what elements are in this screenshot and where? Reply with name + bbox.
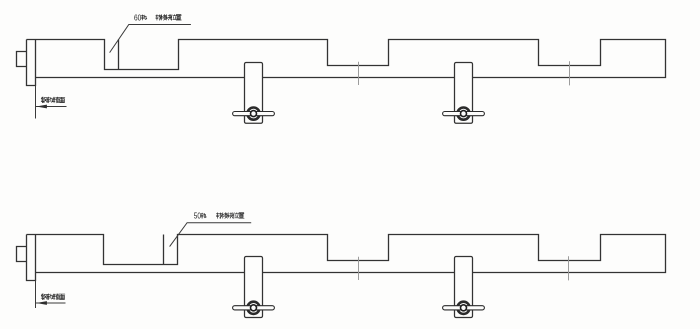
- rail end face arrow (bottom): [36, 301, 47, 305]
- label text 转换块位置: [156, 15, 162, 20]
- label text 转换块位置 (50): [216, 213, 222, 219]
- rail end face arrow: [36, 105, 47, 109]
- wing bar: [443, 112, 485, 116]
- tab lug: [17, 52, 27, 67]
- label text 钢轨端面 (top): [41, 97, 47, 103]
- nut centre hole: [251, 305, 257, 311]
- rail end face leader: [36, 106, 67, 108]
- leader line label 60 rail: [110, 25, 191, 53]
- wing nut body ring: [457, 108, 469, 120]
- wing bar: [233, 112, 275, 116]
- wire rail top profile outline: [27, 40, 666, 78]
- clamp body: [455, 63, 473, 124]
- wing nut body ring: [247, 302, 259, 314]
- rail end face extension line: [35, 86, 37, 119]
- label text 轨: [141, 15, 146, 20]
- rail joint tick 3: [358, 257, 360, 280]
- transition block divider: [163, 235, 165, 265]
- clamp body: [245, 63, 263, 124]
- wing nut body ring: [247, 108, 259, 120]
- rail end face extension line (bottom): [35, 281, 37, 309]
- rail joint tick 2: [569, 61, 571, 85]
- leader line label 50 rail: [170, 223, 252, 247]
- end plate: [27, 235, 36, 281]
- nut centre hole: [461, 111, 467, 117]
- rail joint tick 1: [358, 62, 360, 85]
- wing nut body ring: [457, 302, 469, 314]
- transition block divider: [118, 40, 120, 70]
- tab lug: [17, 247, 27, 262]
- clamp body: [245, 257, 263, 318]
- nut centre hole: [251, 111, 257, 117]
- svg-text:50: 50: [194, 211, 201, 221]
- label text 钢轨端面 (bottom): [41, 294, 47, 300]
- rail joint tick 4: [568, 256, 570, 280]
- wing bar: [233, 306, 275, 310]
- wing bar: [443, 306, 485, 310]
- rail end face leader (bottom): [36, 302, 66, 304]
- clamp body: [455, 257, 473, 318]
- end plate: [27, 40, 36, 86]
- nut centre hole: [461, 305, 467, 311]
- wire rail top profile outline: [27, 235, 666, 273]
- svg-text:60: 60: [134, 13, 142, 22]
- label text 轨 (50): [201, 213, 206, 218]
